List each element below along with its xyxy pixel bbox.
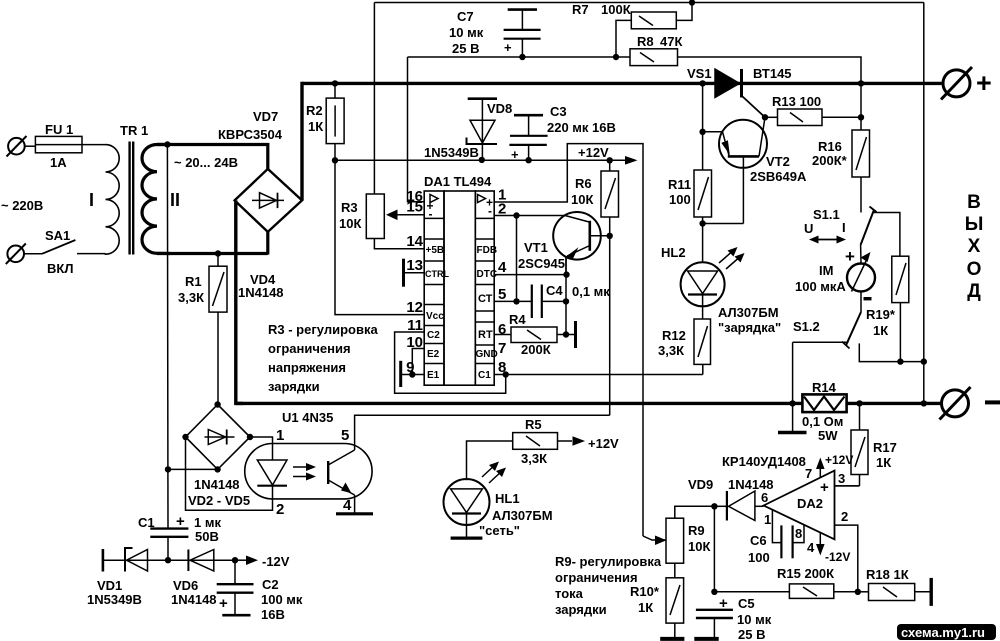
svg-text:R16: R16 xyxy=(818,139,842,154)
node R15 right xyxy=(855,589,861,595)
resistor R8 xyxy=(408,49,862,84)
svg-text:1: 1 xyxy=(764,512,771,527)
resistor R7 xyxy=(616,3,692,58)
svg-text:VD1: VD1 xyxy=(97,578,122,593)
resistor R17 xyxy=(835,403,869,486)
DA2 pin4 -12V xyxy=(816,533,825,555)
svg-text:3,3К: 3,3К xyxy=(521,451,547,466)
svg-text:Е1: Е1 xyxy=(427,370,440,381)
svg-text:1N5349В: 1N5349В xyxy=(87,592,142,607)
wire pin8 C1 xyxy=(494,374,703,376)
resistor R18 xyxy=(858,584,931,601)
label minus meter xyxy=(864,297,872,300)
svg-text:14: 14 xyxy=(406,233,423,250)
svg-text:зарядки: зарядки xyxy=(268,379,320,394)
svg-text:TR 1: TR 1 xyxy=(120,123,148,138)
svg-text:+: + xyxy=(504,40,512,55)
node R7 R8 junction xyxy=(613,54,619,60)
svg-text:1N4148: 1N4148 xyxy=(238,285,284,300)
DA2 pin7 +12V xyxy=(816,458,825,478)
HL2 light arrows xyxy=(719,247,745,269)
ground U1 pin4 xyxy=(336,512,373,515)
svg-text:1К: 1К xyxy=(638,600,653,615)
fuse FU1 xyxy=(35,136,105,152)
IC DA1 amp symbols and polarity xyxy=(430,195,486,203)
wire Vcc pin12 from R2 xyxy=(335,160,424,314)
svg-text:50В: 50В xyxy=(195,529,219,544)
minus line (thick) xyxy=(236,402,803,405)
svg-text:VT2: VT2 xyxy=(766,154,790,169)
node R6 top xyxy=(607,157,613,163)
svg-text:S1.2: S1.2 xyxy=(793,319,820,334)
resistor R15 xyxy=(714,584,857,599)
node VT2 emitter xyxy=(699,129,705,135)
svg-text:2SC945: 2SC945 xyxy=(518,256,565,271)
transistor VT2 xyxy=(703,117,767,223)
node AC tap xyxy=(165,466,171,472)
svg-text:S1.1: S1.1 xyxy=(813,207,840,222)
svg-text:25 В: 25 В xyxy=(452,41,479,56)
arrow to R9 wiper xyxy=(643,536,666,540)
svg-text:DTC: DTC xyxy=(477,269,498,280)
svg-text:4: 4 xyxy=(343,497,352,514)
node S1.2 drop xyxy=(789,400,795,406)
diode line minus12 xyxy=(103,559,235,561)
text R3 regulation note xyxy=(268,322,378,394)
DA2 pin2 wire xyxy=(835,525,858,592)
svg-text:100К: 100К xyxy=(601,2,631,17)
svg-text:7: 7 xyxy=(498,340,506,357)
svg-text:13: 13 xyxy=(406,257,423,274)
svg-text:12: 12 xyxy=(406,299,423,316)
svg-text:+: + xyxy=(976,68,992,98)
svg-text:47К: 47К xyxy=(660,34,682,49)
svg-text:HL1: HL1 xyxy=(495,491,520,506)
svg-text:1N4148: 1N4148 xyxy=(194,477,240,492)
svg-text:С1: С1 xyxy=(478,370,491,381)
IC DA1 left column dividers xyxy=(424,218,444,363)
svg-text:VD8: VD8 xyxy=(487,101,512,116)
svg-text:Е2: Е2 xyxy=(427,349,440,360)
svg-text:100 мкА: 100 мкА xyxy=(795,279,846,294)
svg-text:R3: R3 xyxy=(341,200,358,215)
arrow -12V xyxy=(235,556,258,566)
svg-text:HL2: HL2 xyxy=(661,245,686,260)
transformer TR1 secondary winding II (thick) xyxy=(142,145,170,254)
wire U1 pin5 to VT1 node xyxy=(355,415,610,443)
svg-text:220 мк 16В: 220 мк 16В xyxy=(547,120,616,135)
svg-text:+12V: +12V xyxy=(588,436,619,451)
resistor R5 xyxy=(467,433,586,481)
svg-text:R12: R12 xyxy=(662,328,686,343)
svg-text:I: I xyxy=(842,220,846,235)
main bus plus (thick) xyxy=(302,82,942,85)
svg-text:SA1: SA1 xyxy=(45,228,70,243)
svg-text:О: О xyxy=(967,259,982,280)
node minus sense xyxy=(921,400,927,406)
svg-text:3: 3 xyxy=(838,471,845,486)
node sense riser xyxy=(921,358,927,364)
svg-text:3,3К: 3,3К xyxy=(178,290,204,305)
svg-text:+: + xyxy=(219,595,228,612)
svg-text:2SB649А: 2SB649А xyxy=(750,169,807,184)
svg-text:1К: 1К xyxy=(876,455,891,470)
svg-text:АЛ307БМ: АЛ307БМ xyxy=(718,305,779,320)
zener diode VD8 xyxy=(467,99,498,160)
wire pin16 riser xyxy=(408,57,425,202)
svg-text:VD2 - VD5: VD2 - VD5 xyxy=(188,493,250,508)
wire pin10 E2 xyxy=(412,349,424,375)
wire secondary top to bridge (thick) xyxy=(157,145,268,169)
wire pin1 to current sense riser xyxy=(494,144,643,536)
svg-text:С1: С1 xyxy=(138,515,155,530)
node R14 right R17 xyxy=(856,400,862,406)
svg-text:ограничения: ограничения xyxy=(268,341,351,356)
svg-text:R1: R1 xyxy=(185,274,202,289)
op-amp DA2 xyxy=(764,471,835,540)
svg-text:4: 4 xyxy=(498,259,507,276)
optocoupler U1 xyxy=(245,444,372,499)
svg-text:С3: С3 xyxy=(550,104,567,119)
node VD9 R9 xyxy=(711,503,717,509)
HL1 light arrows xyxy=(482,462,506,484)
ground R4 xyxy=(574,321,577,348)
label VYHOD xyxy=(965,192,984,302)
svg-text:U: U xyxy=(804,221,813,236)
svg-text:R14: R14 xyxy=(812,380,837,395)
resistor R19 xyxy=(892,256,909,361)
svg-text:КР140УД1408: КР140УД1408 xyxy=(722,454,806,469)
svg-text:+: + xyxy=(719,595,728,612)
node pin9 pin10 xyxy=(409,371,415,377)
svg-text:100 мк: 100 мк xyxy=(261,592,303,607)
resistor R16 xyxy=(852,130,870,213)
output terminal minus xyxy=(940,387,971,420)
node VT2 collector R13 xyxy=(762,114,768,120)
U1 internal arrows xyxy=(293,463,316,481)
svg-text:напряжения: напряжения xyxy=(268,360,346,375)
capacitor C7 xyxy=(504,10,541,57)
label minus output xyxy=(985,400,1000,404)
wire bridge2 left to pin2 xyxy=(186,437,273,510)
svg-text:С4: С4 xyxy=(546,283,563,298)
transformer TR1 core xyxy=(130,142,134,255)
node bridge2 top xyxy=(214,401,220,407)
svg-text:10 мк: 10 мк xyxy=(737,612,772,627)
svg-text:0,1 Ом: 0,1 Ом xyxy=(802,414,843,429)
IC DA1 pin numbers left xyxy=(406,188,423,376)
svg-text:FDB: FDB xyxy=(477,245,498,256)
node C3 bottom xyxy=(525,157,531,163)
svg-text:100: 100 xyxy=(669,192,691,207)
svg-text:6: 6 xyxy=(498,321,506,338)
lower bridge VD2-VD5 xyxy=(186,405,251,470)
shunt resistor R14 xyxy=(802,394,846,412)
output terminal plus xyxy=(941,67,972,100)
svg-text:R11: R11 xyxy=(668,177,691,192)
LED HL1 xyxy=(444,479,490,538)
resistor R4 xyxy=(511,327,574,343)
LED HL2 xyxy=(681,262,725,319)
input terminal top xyxy=(7,136,36,157)
svg-text:1N5349В: 1N5349В xyxy=(424,145,479,160)
svg-text:7: 7 xyxy=(805,466,812,481)
node pin2 branch xyxy=(513,212,519,218)
svg-text:R13 100: R13 100 xyxy=(772,94,821,109)
bridge rectifier VD7 xyxy=(235,169,302,232)
svg-text:Ы: Ы xyxy=(965,214,984,235)
svg-text:25 В: 25 В xyxy=(738,627,765,641)
node R1 top tap xyxy=(215,250,221,256)
svg-text:5: 5 xyxy=(498,286,506,303)
svg-text:VS1: VS1 xyxy=(687,66,712,81)
node bridge2 bottom xyxy=(214,466,220,472)
thyristor VS1 xyxy=(715,69,765,117)
wire bus to R16 xyxy=(860,83,862,130)
svg-text:~ 220В: ~ 220В xyxy=(1,198,43,213)
svg-text:R6: R6 xyxy=(575,176,592,191)
svg-text:С7: С7 xyxy=(457,9,474,24)
svg-text:ограничения: ограничения xyxy=(555,570,638,585)
svg-text:+: + xyxy=(820,479,829,496)
svg-text:R17: R17 xyxy=(873,440,897,455)
wire bridge bottom vertex down (thick) xyxy=(266,232,269,255)
svg-text:DA1 TL494: DA1 TL494 xyxy=(424,174,492,189)
resistor R10 xyxy=(666,578,684,639)
node VS1 anode xyxy=(699,80,705,86)
svg-text:R3 - регулировка: R3 - регулировка xyxy=(268,322,378,337)
node R4 right xyxy=(563,331,569,337)
svg-text:+: + xyxy=(176,513,185,530)
node secondary top xyxy=(164,141,170,147)
node CT left xyxy=(513,298,519,304)
svg-text:10К: 10К xyxy=(571,192,593,207)
DA2 pin3 wire xyxy=(835,485,860,487)
svg-text:VD7: VD7 xyxy=(253,109,278,124)
svg-text:КВРС3504: КВРС3504 xyxy=(218,127,283,142)
svg-text:+: + xyxy=(511,147,519,162)
svg-text:-12V: -12V xyxy=(825,550,850,564)
ground R10 xyxy=(660,637,684,641)
svg-text:5: 5 xyxy=(341,427,349,444)
wire emitter to R4 node xyxy=(565,256,567,334)
transistor VT1 xyxy=(553,212,610,275)
svg-text:100: 100 xyxy=(748,550,770,565)
wire bridge2 bottom to AC xyxy=(168,468,218,470)
wire pin4 DTC xyxy=(494,274,566,276)
resistor R13 xyxy=(765,109,861,126)
node CT right xyxy=(563,298,569,304)
svg-text:R10*: R10* xyxy=(630,584,660,599)
svg-text:15: 15 xyxy=(406,199,423,216)
capacitor C2 xyxy=(217,560,254,615)
svg-text:FU 1: FU 1 xyxy=(45,122,73,137)
ground pin9 E1 xyxy=(401,361,425,387)
watermark xyxy=(897,624,996,640)
svg-text:R9- регулировка: R9- регулировка xyxy=(555,554,662,569)
node bridge2 left xyxy=(182,434,188,440)
svg-text:3,3К: 3,3К xyxy=(658,343,684,358)
diode VD6 xyxy=(188,550,213,572)
resistor R1 xyxy=(209,254,227,405)
switch SA1 xyxy=(42,240,106,254)
svg-text:R15 200К: R15 200К xyxy=(777,566,834,581)
node pin8 xyxy=(503,371,509,377)
op-amp IC DA1 TL494 outline xyxy=(424,191,494,385)
svg-text:VT1: VT1 xyxy=(524,240,548,255)
node R8 bus junction xyxy=(858,80,864,86)
node VD8 bottom xyxy=(479,157,485,163)
node R2 top xyxy=(332,80,338,86)
svg-text:VD6: VD6 xyxy=(173,578,198,593)
svg-text:10 мк: 10 мк xyxy=(449,25,484,40)
svg-text:~ 20... 24В: ~ 20... 24В xyxy=(174,155,238,170)
svg-text:-12V: -12V xyxy=(262,554,290,569)
svg-text:С2: С2 xyxy=(262,577,279,592)
wire pin11 to pin8 C2-C1 xyxy=(395,332,506,393)
svg-text:ВТ145: ВТ145 xyxy=(753,66,792,81)
svg-text:II: II xyxy=(170,190,180,210)
node C7 bottom xyxy=(519,54,525,60)
svg-text:R4: R4 xyxy=(509,312,526,327)
wire VS1 node down xyxy=(702,83,704,170)
svg-text:200К: 200К xyxy=(521,342,551,357)
DA2 pin8 wire xyxy=(793,525,804,543)
svg-text:DA2: DA2 xyxy=(797,496,823,511)
resistor R2 xyxy=(326,83,344,160)
svg-text:1К: 1К xyxy=(308,119,323,134)
wire pin2 xyxy=(494,215,565,217)
svg-text:R19*: R19* xyxy=(866,307,896,322)
input terminal bottom xyxy=(6,244,42,265)
ground near R14 xyxy=(778,431,807,434)
svg-text:С5: С5 xyxy=(738,596,755,611)
U1 phototransistor xyxy=(328,444,354,499)
svg-text:"сеть": "сеть" xyxy=(479,523,520,538)
svg-text:5W: 5W xyxy=(818,428,838,443)
svg-text:0,1 мк: 0,1 мк xyxy=(572,284,610,299)
svg-text:10К: 10К xyxy=(688,539,710,554)
node R19 bottom xyxy=(897,358,903,364)
wire top feedback line xyxy=(374,2,923,4)
svg-text:R2: R2 xyxy=(306,103,323,118)
ground C5 xyxy=(694,637,718,641)
node bridge2 right xyxy=(247,434,253,440)
svg-text:RT: RT xyxy=(478,329,493,341)
arrow U-I xyxy=(809,236,846,244)
svg-text:АЛ307БМ: АЛ307БМ xyxy=(492,508,553,523)
transformer TR1 primary winding I xyxy=(106,145,120,255)
wire end bar left xyxy=(102,549,105,572)
svg-text:R8: R8 xyxy=(637,34,654,49)
svg-text:1N4148: 1N4148 xyxy=(171,592,217,607)
node C2 top xyxy=(232,557,238,563)
wire bridge left vertex down to minus line (thick) xyxy=(236,200,243,403)
svg-text:IМ: IМ xyxy=(819,263,833,278)
svg-text:-: - xyxy=(488,204,492,218)
zener diode VD1 xyxy=(125,548,148,572)
svg-text:4: 4 xyxy=(807,540,815,555)
resistor R12 xyxy=(694,319,711,375)
meter IM xyxy=(847,252,875,292)
capacitor C3 xyxy=(509,115,547,160)
wire secondary bottom line (thick) xyxy=(157,252,268,255)
svg-text:8: 8 xyxy=(795,526,802,541)
node R13 right xyxy=(858,114,864,120)
capacitor C5 xyxy=(696,610,733,639)
svg-text:+12V: +12V xyxy=(578,145,609,160)
IC DA1 right column dividers xyxy=(475,218,494,363)
ground pin13 CTRL xyxy=(404,259,425,287)
svg-text:1 мк: 1 мк xyxy=(194,515,221,530)
svg-text:Vcc: Vcc xyxy=(426,311,444,322)
arrow +12V rail xyxy=(625,156,638,165)
svg-text:R18 1К: R18 1К xyxy=(866,567,909,582)
wiper arrow R3 pin15 xyxy=(386,210,424,221)
switch S1.1 xyxy=(861,207,900,264)
node VT1 base R6 xyxy=(607,233,613,239)
capacitor C1 xyxy=(150,529,188,561)
node R15 C5 xyxy=(711,589,717,595)
node R2 bottom xyxy=(332,157,338,163)
wire U1 pin4 ground xyxy=(354,499,356,514)
svg-text:"зарядка": "зарядка" xyxy=(718,320,781,335)
wire pin5 CT xyxy=(494,300,532,302)
diode VD9 xyxy=(714,491,763,521)
svg-text:R9: R9 xyxy=(688,523,705,538)
ground HL1 xyxy=(451,536,483,539)
svg-text:R7: R7 xyxy=(572,2,589,17)
svg-text:2: 2 xyxy=(276,501,284,518)
node R11 bottom VT2 base xyxy=(699,220,705,226)
svg-text:СТ: СТ xyxy=(478,293,493,305)
node R7 top xyxy=(689,0,695,6)
svg-text:2: 2 xyxy=(841,509,848,524)
svg-text:-: - xyxy=(429,207,433,221)
capacitor C6 xyxy=(781,525,792,558)
DA2 pin1 wire xyxy=(772,510,781,543)
svg-text:GND: GND xyxy=(476,349,498,360)
svg-text:6: 6 xyxy=(761,490,768,505)
svg-text:200К*: 200К* xyxy=(812,153,848,168)
potentiometer R3 xyxy=(366,3,424,249)
svg-text:16В: 16В xyxy=(261,607,285,622)
svg-text:+12V: +12V xyxy=(825,453,853,467)
svg-text:1: 1 xyxy=(276,427,284,444)
svg-text:схема.my1.ru: схема.my1.ru xyxy=(901,625,985,640)
svg-text:10К: 10К xyxy=(339,216,361,231)
wire VD9 node down to R15 xyxy=(713,506,715,592)
wire AC feed vertical xyxy=(166,145,169,529)
ground R18 xyxy=(930,578,933,606)
wire bridge2 right to pin1 xyxy=(250,437,273,444)
wire pin2 branch down to CT xyxy=(516,216,518,302)
node DTC emitter xyxy=(563,271,569,277)
svg-text:1К: 1К xyxy=(873,323,888,338)
svg-text:I: I xyxy=(89,190,94,210)
wire bridge right vertex to bus (thick) xyxy=(300,82,303,201)
wire sense riser xyxy=(923,3,925,404)
svg-text:VD9: VD9 xyxy=(688,477,713,492)
node C1 bottom xyxy=(165,557,171,563)
svg-text:+: + xyxy=(845,247,855,266)
svg-text:+5В: +5В xyxy=(426,245,445,256)
switch S1.2 xyxy=(793,292,924,433)
capacitor C4 xyxy=(532,285,566,319)
svg-text:U1 4N35: U1 4N35 xyxy=(282,410,333,425)
potentiometer R9 xyxy=(666,506,714,578)
resistor R6 xyxy=(601,160,619,236)
